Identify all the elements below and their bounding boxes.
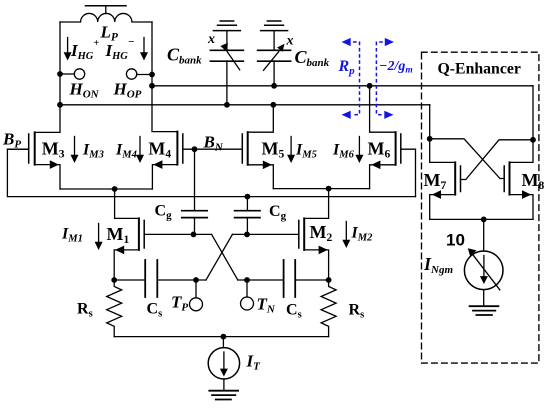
inductor LP xyxy=(60,13,152,22)
transistor M2 xyxy=(299,189,329,280)
capacitor Cs left xyxy=(111,260,157,297)
arrow IM3 xyxy=(71,137,79,164)
arrow IM6 xyxy=(355,137,363,164)
wire rail2 HON net xyxy=(57,102,430,108)
wire M2 gate xyxy=(232,232,298,238)
transistor M6 xyxy=(367,83,416,197)
arrow IM1 xyxy=(95,224,103,251)
node BN xyxy=(183,146,243,210)
wire Q cross couple xyxy=(430,139,533,180)
arrow IHG- xyxy=(140,38,148,61)
resistor Rs left xyxy=(107,280,122,337)
arrow IM2 xyxy=(342,222,350,249)
arrow IHG+ xyxy=(64,38,72,61)
transistor M5 xyxy=(242,102,276,189)
blue bracket -2/gm xyxy=(376,38,394,119)
transistor M4 xyxy=(152,132,182,189)
ground IT xyxy=(209,391,238,400)
ground INgm xyxy=(470,306,499,315)
arrow IM4 xyxy=(136,137,144,164)
transistor M7 xyxy=(430,162,461,219)
wire M5 M6 common source xyxy=(273,186,369,192)
node TP xyxy=(157,277,206,311)
wire M1 gate xyxy=(144,232,211,238)
wire Q right rail xyxy=(510,86,536,163)
net BP wire xyxy=(7,149,415,199)
wire cross couple diagonals xyxy=(206,234,238,280)
wire Q common source xyxy=(430,217,533,252)
svg-text:Q-Enhancer: Q-Enhancer xyxy=(438,60,521,77)
arrow IM5 xyxy=(287,137,295,164)
transistor M1 xyxy=(114,189,144,280)
wire Q left rail xyxy=(427,105,455,163)
capacitor Cg right xyxy=(235,197,260,235)
svg-text:x: x xyxy=(207,32,215,47)
varactor Cbank left xyxy=(210,21,243,108)
svg-text:10: 10 xyxy=(446,231,465,250)
transistor M8 xyxy=(504,162,533,219)
wire right tank vertical xyxy=(152,22,177,132)
capacitor Cs right xyxy=(284,260,332,297)
wire tail rail xyxy=(114,334,328,340)
current source IT xyxy=(208,337,239,391)
current source INgm xyxy=(464,248,503,306)
wire left tank vertical xyxy=(35,22,60,132)
resistor Rs right xyxy=(321,280,336,337)
transistor M3 xyxy=(7,132,60,189)
Q-enhancer dashed box xyxy=(422,52,539,363)
wire M3 M4 common source xyxy=(60,186,152,192)
varactor Cbank right xyxy=(258,21,291,89)
wire rail1 HOP net xyxy=(149,83,533,89)
svg-text:x: x xyxy=(286,34,294,49)
blue bracket Rp xyxy=(342,38,360,119)
node HOP probe xyxy=(126,69,155,79)
capacitor Cg left xyxy=(182,211,207,235)
supply rail bar xyxy=(86,6,127,14)
node TN xyxy=(238,277,284,310)
node HON probe xyxy=(57,69,85,79)
